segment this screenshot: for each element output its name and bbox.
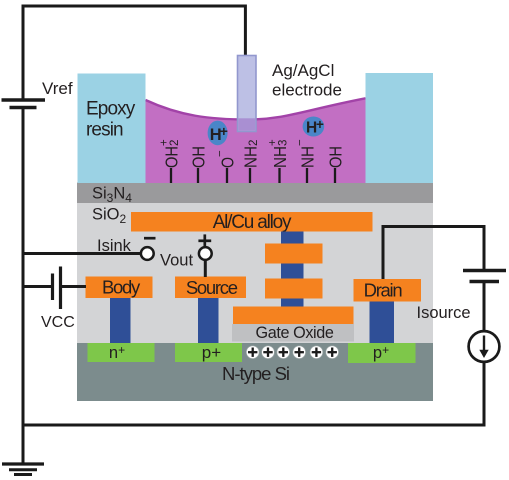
epoxy resin block left xyxy=(78,74,146,184)
meniscus edge (dark purple) xyxy=(146,98,366,119)
wire bottom rail xyxy=(23,424,484,427)
svg-text:Drain: Drain xyxy=(364,280,403,301)
solution (purple electrolyte) xyxy=(146,98,366,183)
gate electrode bar (orange) xyxy=(233,307,354,325)
svg-text:NH3+: NH3+ xyxy=(267,139,290,168)
wire current source to bottom rail xyxy=(483,363,486,427)
battery right (unlabeled) xyxy=(463,271,506,282)
gate metal 2 (orange) xyxy=(265,279,323,299)
wire VCC tee xyxy=(23,285,51,288)
gate via 3 (blue) xyxy=(281,299,304,308)
ion H+ left xyxy=(208,121,228,146)
chip SiO2 body (light gray) xyxy=(77,203,433,343)
wire left vertical rail below Vref xyxy=(22,108,25,465)
svg-text:+: + xyxy=(220,123,228,139)
surface group -NH2 xyxy=(241,140,261,183)
svg-text:OH: OH xyxy=(326,146,346,168)
gate oxide layer xyxy=(232,324,354,342)
ground xyxy=(2,464,44,475)
wire Vout to Source xyxy=(204,260,207,277)
wire top-left loop from Vref to electrode xyxy=(23,6,245,99)
electrode submerged tip xyxy=(238,118,255,130)
terminal Body (orange) xyxy=(86,277,153,299)
svg-text:VCC: VCC xyxy=(41,314,75,331)
wire Isink tee xyxy=(23,252,141,255)
gate via 2 (blue) xyxy=(281,264,304,279)
svg-text:Ag/AgCl: Ag/AgCl xyxy=(272,61,334,80)
channel positive charges xyxy=(246,346,338,359)
ion H+ right xyxy=(303,117,325,137)
terminal circle plus xyxy=(199,247,212,260)
metal Al/Cu alloy bar xyxy=(131,212,373,232)
surface group -NH- xyxy=(295,139,318,183)
contact source (blue) xyxy=(198,298,219,343)
layer N-type Si substrate xyxy=(77,343,433,401)
surface group -OH (1) xyxy=(189,146,209,183)
contact body (blue) xyxy=(110,298,131,343)
surface group -NH3+ xyxy=(267,139,290,183)
current source Isource (circle with down arrow) xyxy=(469,331,500,362)
wire Drain to right rail xyxy=(383,227,484,280)
terminal Drain (orange) xyxy=(354,279,422,302)
gate via 1 (blue) xyxy=(281,232,304,244)
svg-text:Al/Cu alloy: Al/Cu alloy xyxy=(213,212,292,233)
surface group -O- xyxy=(215,150,238,183)
layer Si3N4 xyxy=(77,183,433,204)
diffusion p+ drain well xyxy=(348,343,416,363)
terminal Source (orange) xyxy=(175,277,246,299)
surface group -OH (2) xyxy=(326,146,346,183)
capacitor VCC plate short xyxy=(51,274,54,301)
capacitor VCC plate tall xyxy=(59,267,62,310)
surface group -OH2+ xyxy=(159,139,182,183)
svg-text:Isink: Isink xyxy=(97,237,132,255)
diffusion p+ source well xyxy=(175,343,242,362)
svg-text:Gate Oxide: Gate Oxide xyxy=(256,324,334,342)
svg-text:p+: p+ xyxy=(202,343,221,362)
svg-text:N-type Si: N-type Si xyxy=(222,363,289,384)
svg-text:Source: Source xyxy=(186,277,238,298)
wire VCC to Body xyxy=(62,285,86,288)
wire battery to current source xyxy=(483,282,486,334)
svg-text:Epoxy: Epoxy xyxy=(86,99,136,120)
epoxy resin block right xyxy=(366,73,434,183)
svg-text:+: + xyxy=(316,117,324,132)
polarity plus xyxy=(198,234,211,247)
svg-text:Vref: Vref xyxy=(42,79,73,98)
svg-text:electrode: electrode xyxy=(272,81,342,100)
gate metal 1 (orange) xyxy=(265,244,323,264)
svg-text:Body: Body xyxy=(102,277,141,298)
svg-text:OH2+: OH2+ xyxy=(159,139,182,168)
polarity minus xyxy=(144,237,156,240)
Ag/AgCl electrode body xyxy=(238,56,257,132)
svg-text:Isource: Isource xyxy=(417,304,471,322)
svg-text:resin: resin xyxy=(86,120,123,141)
diffusion n+ well xyxy=(88,343,155,362)
svg-text:Vout: Vout xyxy=(160,252,193,270)
svg-text:OH: OH xyxy=(189,146,209,168)
contact drain (blue) xyxy=(370,302,395,344)
battery Vref xyxy=(2,100,46,108)
terminal circle minus xyxy=(141,247,154,260)
